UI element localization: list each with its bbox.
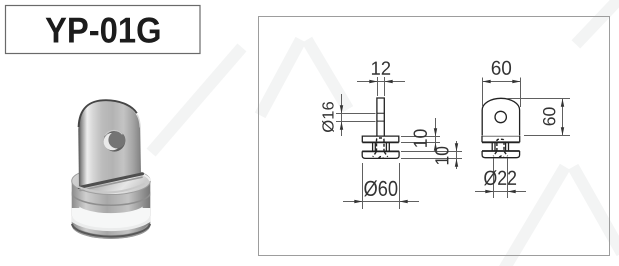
bottom steel ring shading bbox=[71, 226, 151, 240]
top face ellipse bbox=[72, 168, 151, 195]
bottom rim bbox=[72, 224, 150, 237]
dimension Ø22 (right view, bottom) bbox=[475, 159, 526, 199]
watermark letters bbox=[155, 0, 619, 266]
glass groove walls bbox=[373, 142, 390, 151]
stem (tab edge-on) bbox=[377, 98, 384, 136]
dimension 12 (left view, top) bbox=[357, 77, 405, 96]
dimension 60 (right view, right side) bbox=[507, 99, 570, 136]
hidden slot + cone (right view) bbox=[493, 139, 507, 157]
dimension 60 (right view, top) bbox=[483, 78, 521, 108]
hidden slot + cone (left view) bbox=[373, 138, 388, 158]
bottom flange bbox=[362, 150, 399, 152]
dimension Ø16 (left view, left) bbox=[336, 94, 376, 136]
dimension 10 upper (left view, right) bbox=[401, 118, 440, 150]
white spacer ring bbox=[71, 208, 151, 222]
rounded tab bbox=[482, 98, 519, 135]
hole hidden lines in stem bbox=[377, 113, 384, 121]
product photo: base cylinder bbox=[71, 168, 151, 243]
groove below top ring bbox=[71, 192, 151, 206]
model label box bbox=[6, 6, 201, 54]
drawing panel frame bbox=[259, 17, 610, 256]
top flange bbox=[362, 136, 399, 142]
top flange sides bbox=[482, 136, 520, 143]
product photo: D-tab with hole bbox=[78, 100, 141, 189]
tab/flange seam bbox=[482, 135, 519, 137]
hole bbox=[104, 130, 126, 152]
slot shadow and front rim over tab base bbox=[77, 174, 145, 193]
hole front bbox=[495, 111, 506, 122]
dimension Ø60 (left view, bottom) bbox=[343, 163, 419, 209]
bottom flange bbox=[482, 150, 520, 152]
model label text YP-01G bbox=[46, 17, 160, 42]
groove walls bbox=[492, 142, 508, 151]
dimension 10 lower (left view, right) bbox=[401, 141, 462, 169]
